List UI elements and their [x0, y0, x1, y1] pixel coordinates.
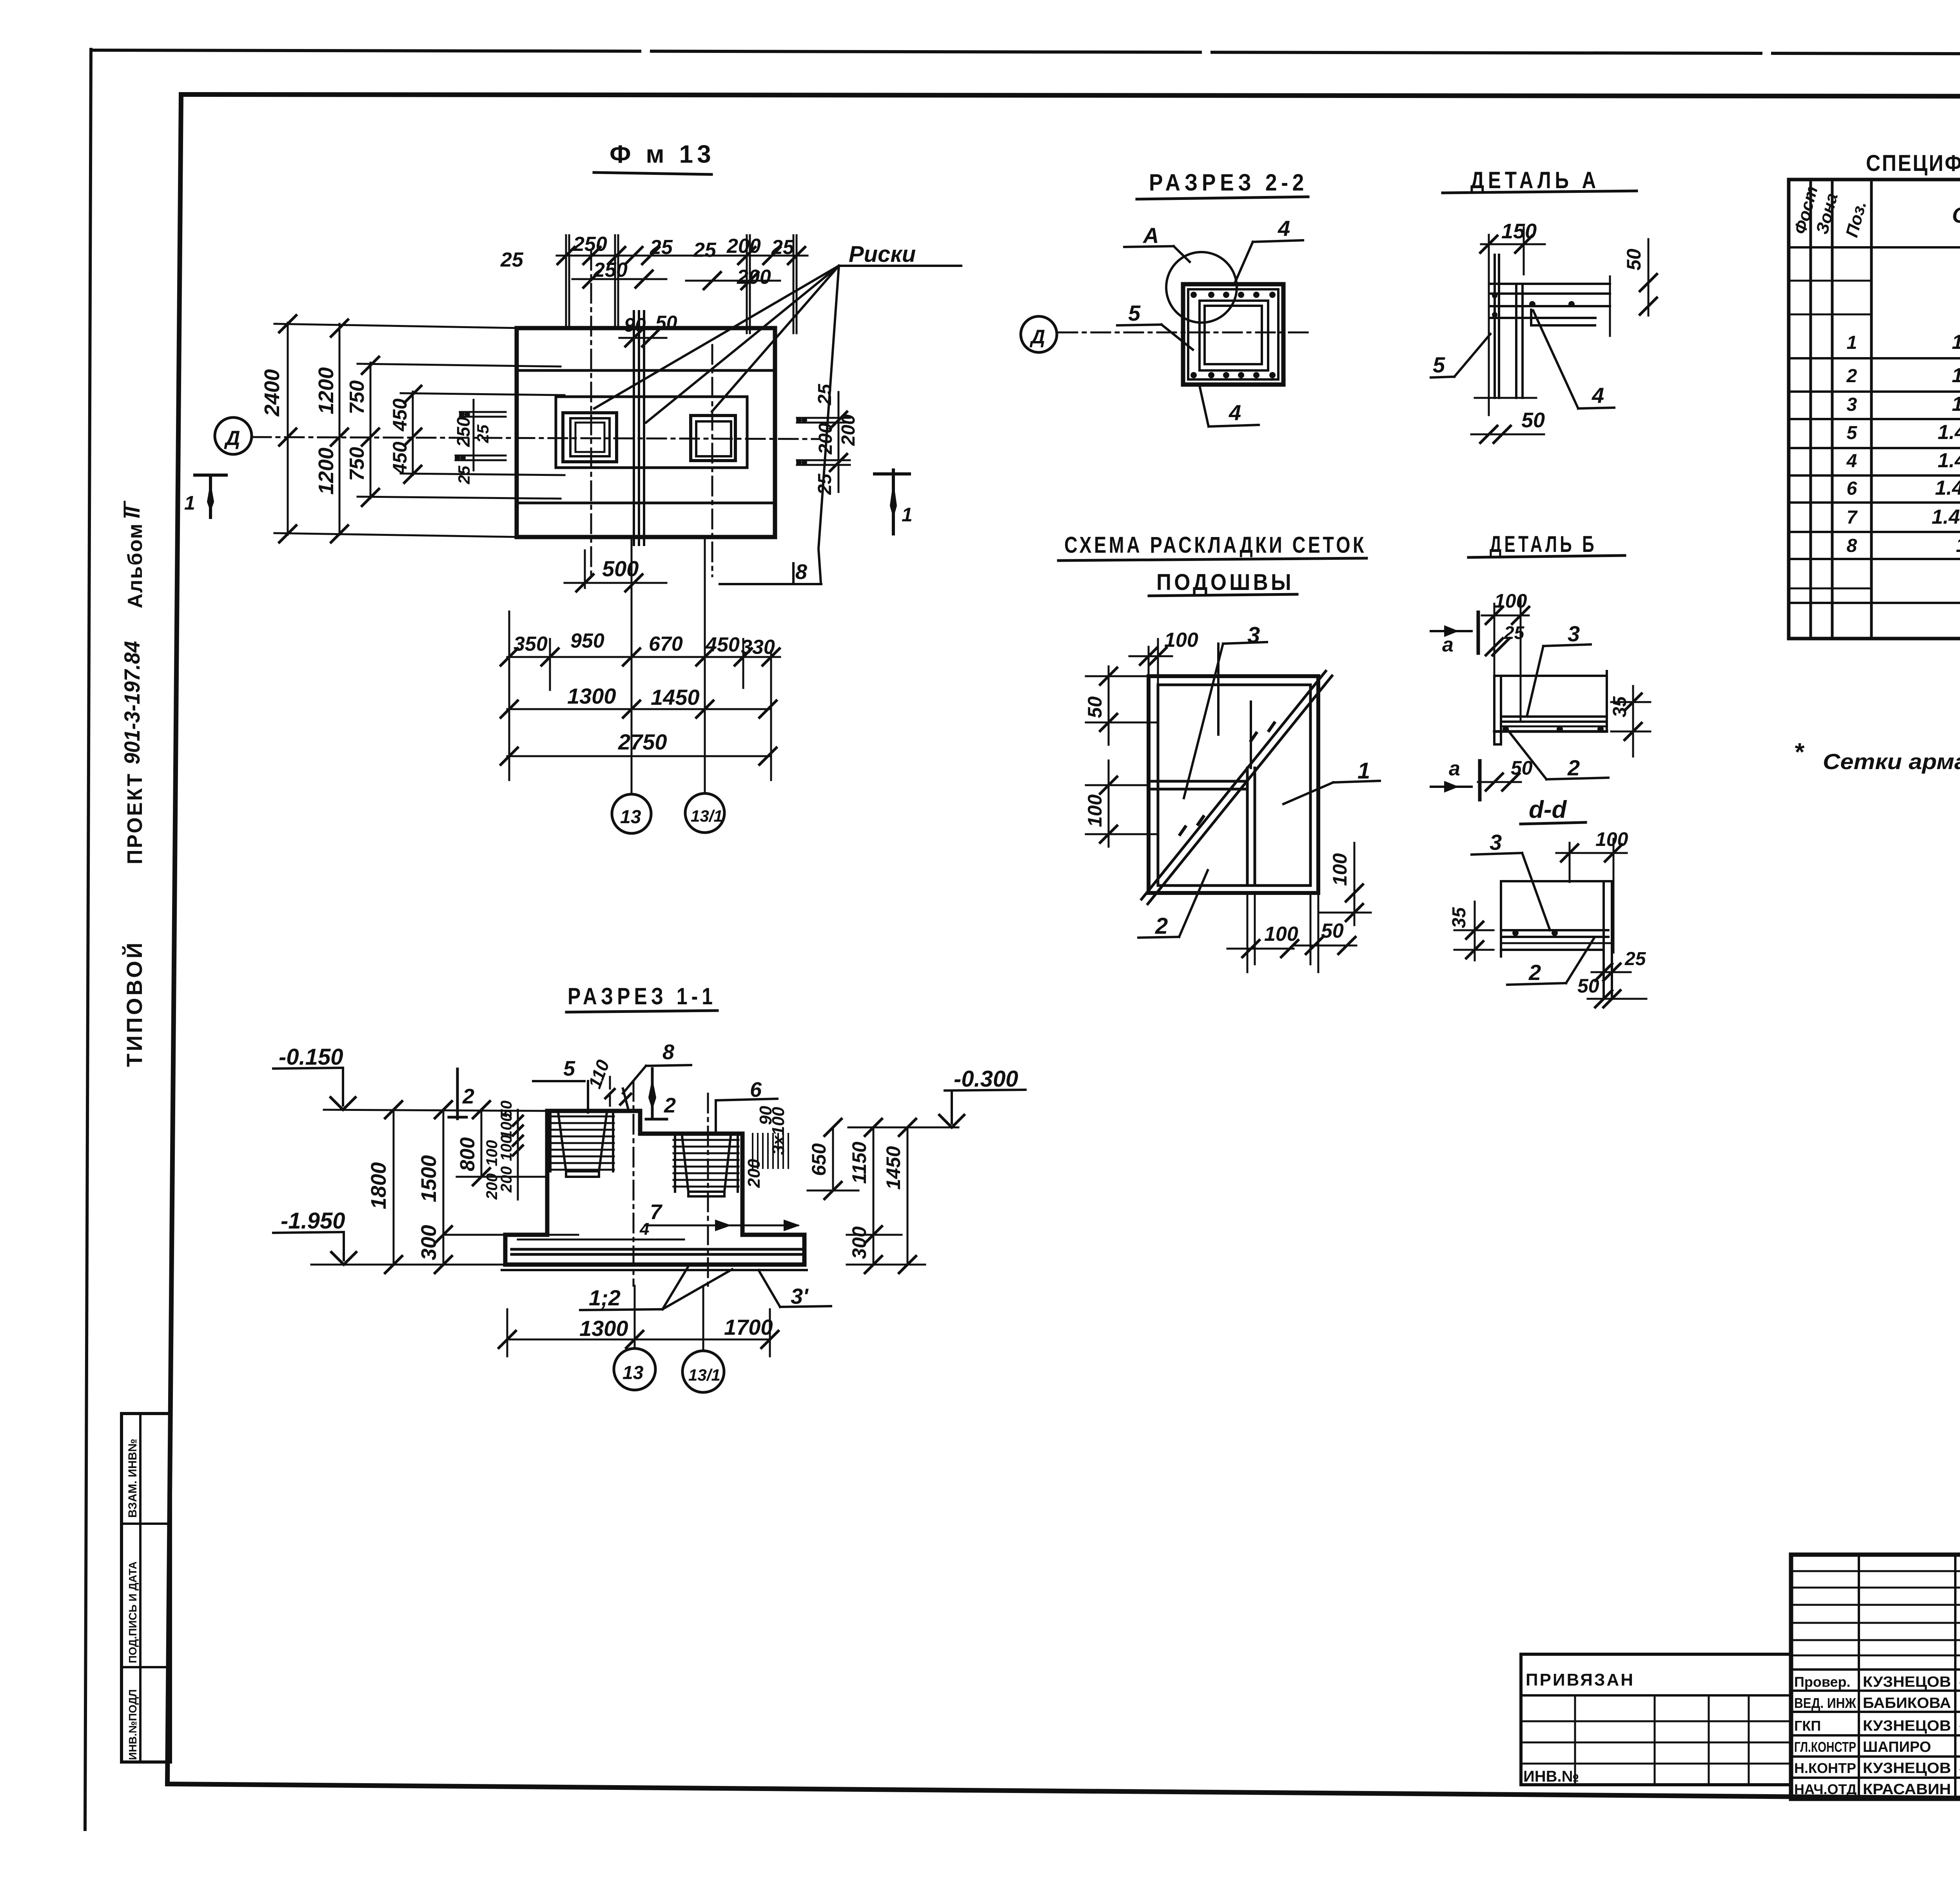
svg-text:Риски: Риски [849, 241, 916, 267]
svg-text:35: 35 [1449, 907, 1470, 928]
svg-text:1700: 1700 [724, 1315, 773, 1339]
svg-text:РАЗРЕЗ 2-2: РАЗРЕЗ 2-2 [1149, 169, 1308, 196]
plan dim 500 [564, 550, 666, 592]
svg-text:Н.КОНТР: Н.КОНТР [1794, 1760, 1856, 1776]
detail A vertical bars [1475, 255, 1595, 398]
title block staff names [1794, 1674, 1951, 1798]
svg-text:Альбом: Альбом [124, 523, 147, 608]
svg-text:50: 50 [498, 1101, 515, 1118]
svg-text:1: 1 [1357, 758, 1370, 784]
svg-text:ВЕД. ИНЖ: ВЕД. ИНЖ [1794, 1695, 1856, 1711]
label 7 and 4 (section 1-1) [639, 1200, 798, 1239]
svg-text:2750: 2750 [618, 730, 667, 754]
label 3' [759, 1270, 831, 1308]
svg-text:ПРИВЯЗАН: ПРИВЯЗАН [1526, 1670, 1635, 1689]
detail B dim 35 right [1610, 686, 1650, 757]
svg-text:1.412.1-4.060: 1.412.1-4.060 [1956, 534, 1960, 557]
mesh scheme inner mesh border [1158, 685, 1310, 886]
svg-text:1.412-1/77 вып.3: 1.412-1/77 вып.3 [1938, 449, 1960, 472]
plan riski trio lines [634, 311, 644, 545]
footing rebar lines [512, 1239, 802, 1254]
section 2-2 rebar dots top [1191, 292, 1276, 298]
axis bubble Д [215, 417, 252, 454]
section 2-2 rebar dots bottom [1191, 372, 1276, 378]
left socket cup [550, 1112, 613, 1177]
svg-text:2: 2 [1155, 913, 1168, 939]
footnote [1794, 738, 1960, 774]
svg-text:950: 950 [570, 630, 604, 652]
plan right column socket [691, 416, 735, 461]
section mark 2 upper (section 1-1) [449, 1069, 474, 1119]
plan vertical axis left square [590, 251, 592, 580]
footing underlay line [502, 1269, 807, 1271]
svg-text:1200: 1200 [314, 367, 338, 414]
svg-text:3: 3 [1568, 621, 1580, 646]
level mark -0.150 [273, 1044, 356, 1110]
svg-text:50: 50 [1084, 696, 1106, 718]
svg-text:5: 5 [563, 1057, 575, 1080]
detail B title [1468, 532, 1625, 557]
detail A title [1443, 167, 1637, 193]
detail B dim 25 [1485, 622, 1525, 656]
svg-text:Д: Д [224, 427, 240, 450]
svg-text:1: 1 [184, 492, 195, 514]
dim 1300 1700 (section 1-1) [498, 1309, 779, 1356]
axis bubble Д (section 2-2) [1021, 316, 1057, 352]
axis bubble 13/1 (plan) [685, 793, 724, 833]
dim 300 right (section 1-1) [847, 1226, 902, 1274]
label 5 (section 1-1) [533, 1057, 588, 1112]
svg-text:1800: 1800 [367, 1162, 390, 1209]
svg-text:200: 200 [483, 1173, 501, 1200]
svg-text:330: 330 [741, 636, 775, 659]
dim 1150 (section 1-1) [848, 1118, 883, 1244]
svg-text:750: 750 [346, 447, 368, 481]
plan bottom helper verticals [509, 612, 771, 780]
spec table grid [1789, 180, 1960, 639]
svg-text:2: 2 [1846, 366, 1857, 387]
svg-text:5: 5 [1128, 301, 1141, 325]
left socket mesh hatch [549, 1116, 614, 1170]
svg-text:1: 1 [1847, 332, 1857, 353]
svg-text:ШАПИРО: ШАПИРО [1863, 1739, 1931, 1755]
svg-text:90: 90 [624, 314, 646, 336]
section d-d title [1521, 796, 1586, 824]
section mark 1 left of plan [184, 475, 226, 517]
svg-text:100: 100 [1264, 923, 1298, 945]
outer border top [91, 50, 1960, 55]
plan dim row 1300 1450 [500, 684, 777, 719]
dim 1500 and 300 (section 1-1) [417, 1100, 578, 1274]
svg-text:1.412-1/77 в3-020: 1.412-1/77 в3-020 [1935, 477, 1960, 499]
detail B dim 50 bottom [1478, 757, 1533, 791]
svg-text:2: 2 [664, 1094, 676, 1117]
section 1-1 right datum line [848, 1127, 958, 1129]
label 8 (section 1-1) [623, 1040, 691, 1093]
svg-text:3: 3 [1490, 830, 1502, 855]
svg-text:650: 650 [808, 1143, 830, 1176]
svg-text:25: 25 [650, 236, 673, 259]
detail A dim 50 bottom [1471, 408, 1545, 444]
spec table headers [1790, 184, 1960, 239]
svg-text:1;2: 1;2 [589, 1285, 621, 1310]
svg-text:КУЗНЕЦОВ: КУЗНЕЦОВ [1863, 1760, 1951, 1777]
spec table title [1866, 151, 1960, 176]
svg-text:450: 450 [705, 633, 740, 656]
spec row 6 [1847, 477, 1960, 501]
section mark a bottom (detail B) [1431, 757, 1480, 800]
section 1-1 top datum line [324, 1110, 547, 1111]
section mark 1 right of plan [875, 470, 913, 534]
plan title Фм 13 [594, 140, 715, 174]
svg-text:750: 750 [346, 380, 368, 414]
detail B slab [1494, 671, 1607, 744]
svg-text:250: 250 [593, 259, 628, 281]
detail A dim 150 [1479, 220, 1545, 415]
label 5 (detail A) [1431, 334, 1490, 377]
spec row 5 [1847, 421, 1960, 445]
svg-text:4: 4 [1592, 383, 1604, 408]
svg-text:6: 6 [750, 1078, 762, 1102]
label 4 (detail A) [1533, 310, 1614, 408]
svg-text:7: 7 [650, 1200, 663, 1224]
detail A callout circle [1166, 252, 1237, 323]
label 4 top (section 2-2) [1235, 216, 1303, 283]
spec row 7 [1847, 506, 1960, 530]
mesh scheme diagonal [1142, 671, 1332, 904]
right socket cup [675, 1136, 738, 1196]
svg-text:50: 50 [1521, 408, 1545, 432]
mesh scheme right dim 100 [1319, 843, 1371, 925]
svg-text:25: 25 [455, 466, 473, 485]
dim 110 (section 1-1) [584, 1057, 615, 1111]
svg-text:ГЛ.КОНСТР: ГЛ.КОНСТР [1794, 1739, 1856, 1755]
spec row 3 [1847, 393, 1960, 417]
svg-text:3x100: 3x100 [769, 1107, 788, 1155]
label 8 with line (plan) [720, 560, 821, 584]
svg-text:100: 100 [483, 1140, 501, 1166]
detail B dim 100 [1482, 590, 1530, 721]
svg-text:СХЕМА РАСКЛАДКИ СЕТОК: СХЕМА РАСКЛАДКИ СЕТОК [1064, 532, 1367, 558]
dim 800 (section 1-1) [456, 1100, 545, 1186]
label 2 (detail B) [1508, 730, 1608, 780]
mesh scheme left dims 50 100 [1084, 666, 1158, 847]
label 4 bottom (section 2-2) [1200, 386, 1259, 426]
axis bubble 13 (plan) [612, 794, 651, 833]
plan top dim line row1 [557, 246, 808, 265]
svg-text:50: 50 [1577, 975, 1599, 997]
svg-text:100: 100 [1329, 853, 1351, 886]
svg-text:Д: Д [1029, 326, 1045, 348]
mesh scheme horizontal divider [1086, 781, 1247, 789]
svg-text:1300: 1300 [579, 1316, 628, 1341]
svg-text:а: а [1442, 633, 1454, 656]
svg-text:8: 8 [662, 1040, 674, 1064]
svg-text:50: 50 [1623, 249, 1645, 270]
svg-text:5: 5 [1847, 423, 1858, 443]
detail A horizontal slab bars [1490, 276, 1610, 336]
plan small dims 250 25 left [453, 400, 506, 485]
title block staff thin rows [1791, 1571, 1960, 1655]
svg-text:300: 300 [417, 1225, 441, 1260]
svg-text:13: 13 [620, 807, 641, 828]
svg-text:1.410-2 вып.1: 1.410-2 вып.1 [1952, 331, 1960, 354]
dim 1800 (section 1-1) [367, 1100, 403, 1274]
plan top dim helper verticals [566, 235, 797, 333]
plan horizontal axis Д [252, 437, 819, 439]
label 3 (d-d) [1472, 830, 1550, 930]
svg-text:200: 200 [737, 266, 771, 289]
section 1-1 axis 13 [633, 1082, 635, 1286]
svg-text:4: 4 [639, 1219, 649, 1239]
dim hatch strokes right of socket [753, 1134, 788, 1168]
svg-text:1.410-2 вып.1: 1.410-2 вып.1 [1952, 364, 1960, 387]
slope label 1:2 [580, 1267, 732, 1310]
svg-text:8: 8 [795, 560, 807, 584]
section mark 2 lower-right (section 1-1) [646, 1069, 676, 1119]
svg-text:4: 4 [1846, 451, 1857, 472]
section 1-1 concrete profile [505, 1111, 804, 1265]
detail A rebar dots [1492, 293, 1575, 318]
left margin project text [120, 502, 147, 1067]
svg-text:5: 5 [1433, 352, 1445, 377]
plan pedestal rectangle [556, 397, 747, 468]
svg-text:25: 25 [771, 236, 795, 259]
label А (section 2-2) [1124, 223, 1190, 262]
svg-text:250: 250 [573, 233, 607, 256]
svg-text:25: 25 [474, 425, 492, 443]
embedded element symbol 1 (section 1-1) [651, 1069, 653, 1116]
svg-text:ПОДОШВЫ: ПОДОШВЫ [1156, 570, 1294, 595]
svg-text:КУЗНЕЦОВ: КУЗНЕЦОВ [1863, 1718, 1951, 1734]
svg-text:13/1: 13/1 [691, 807, 723, 825]
svg-text:2: 2 [462, 1085, 474, 1108]
svg-text:100: 100 [1595, 828, 1628, 850]
svg-text:БАБИКОВА: БАБИКОВА [1863, 1695, 1951, 1711]
svg-text:-1.950: -1.950 [281, 1208, 345, 1234]
svg-text:670: 670 [649, 633, 683, 655]
svg-text:Провер.: Провер. [1794, 1674, 1851, 1690]
svg-text:ДЕТАЛЬ Б: ДЕТАЛЬ Б [1490, 532, 1597, 557]
axis bubble 13 (section 1-1) [614, 1348, 655, 1390]
svg-text:1500: 1500 [417, 1155, 441, 1202]
detail B rebar dots [1503, 726, 1604, 732]
d-d dim 100 [1556, 828, 1628, 953]
label 5 (section 2-2) [1117, 301, 1193, 350]
svg-text:200: 200 [726, 235, 761, 258]
mesh scheme dim 100 top [1129, 629, 1198, 685]
section 1-1 axis 13/1 [707, 1094, 709, 1286]
svg-text:200: 200 [744, 1159, 764, 1188]
mesh scheme outer square [1149, 676, 1318, 893]
svg-text:1.412-1/77-в.3-130: 1.412-1/77-в.3-130 [1932, 506, 1960, 528]
left margin inventory table [122, 1414, 171, 1762]
svg-text:1.412-1/77 вып.3: 1.412-1/77 вып.3 [1938, 421, 1960, 444]
detail A dim 50 right [1623, 239, 1658, 316]
plan outer footing rectangle [517, 328, 775, 537]
svg-text:СПЕЦИФИКАЦИЯ ЭЛЕМЕНТОВ МОНОЛИТ: СПЕЦИФИКАЦИЯ ЭЛЕМЕНТОВ МОНОЛИТНОЙ КОНСТР… [1866, 151, 1960, 176]
svg-text:*: * [1794, 738, 1805, 766]
right socket mesh hatch [673, 1140, 739, 1187]
svg-text:25: 25 [815, 473, 835, 495]
svg-text:800: 800 [456, 1137, 479, 1171]
plan top dim line row2 [572, 259, 780, 290]
section 1-1 title [566, 983, 717, 1012]
level mark -0.300 [938, 1066, 1025, 1127]
svg-text:50: 50 [1511, 757, 1533, 779]
title block staff row lines [1791, 1670, 1960, 1778]
label 2 (mesh scheme) [1138, 870, 1208, 939]
svg-text:1: 1 [902, 504, 913, 526]
svg-text:Сетки арматурные поз.12 (1С12: Сетки арматурные поз.12 (1С12АП-6х18)обр… [1823, 749, 1960, 774]
svg-text:25: 25 [1624, 949, 1646, 969]
plan left column socket [563, 413, 617, 462]
mesh scheme vertical divider [1247, 702, 1255, 886]
spec row 8 [1847, 534, 1960, 558]
svg-text:ТИПОВОЙ: ТИПОВОЙ [122, 940, 147, 1067]
section 2-2 title [1137, 169, 1308, 199]
svg-text:ИНВ.№: ИНВ.№ [1523, 1768, 1579, 1785]
svg-text:7: 7 [1847, 507, 1858, 528]
plan band lines [517, 370, 775, 503]
label 3 (mesh scheme) [1184, 622, 1267, 798]
svg-text:50: 50 [1321, 920, 1344, 942]
section 1-1 axis drop lines [635, 1286, 703, 1351]
svg-text:13: 13 [622, 1363, 644, 1383]
dims 90 3x100 200 (section 1-1 right) [744, 1106, 788, 1188]
d-d slab [1501, 881, 1612, 999]
svg-text:-0.300: -0.300 [954, 1066, 1018, 1092]
svg-text:450: 450 [389, 398, 411, 432]
plan dim 450 450 vertical [389, 385, 564, 484]
d-d dim 35 left [1449, 902, 1494, 960]
svg-text:25: 25 [693, 239, 717, 261]
svg-text:2: 2 [1567, 755, 1580, 780]
svg-text:4: 4 [1278, 216, 1290, 241]
svg-text:d-d: d-d [1529, 796, 1567, 823]
svg-text:ВЗАМ. ИНВ№: ВЗАМ. ИНВ№ [126, 1439, 139, 1518]
svg-text:25: 25 [500, 249, 524, 271]
label 1 (mesh scheme) [1283, 758, 1380, 804]
svg-text:ПОД.ПИСЬ И ДАТА: ПОД.ПИСЬ И ДАТА [127, 1561, 139, 1663]
svg-text:50: 50 [655, 312, 677, 334]
plan top dim row1 numbers [500, 233, 795, 271]
plan axis drop lines to bubbles [632, 537, 705, 794]
section mark a top (detail B) [1431, 612, 1478, 656]
svg-text:300: 300 [848, 1226, 870, 1259]
label 3 (detail B) [1527, 621, 1591, 717]
svg-text:2400: 2400 [260, 369, 284, 417]
svg-text:450: 450 [389, 441, 411, 475]
svg-text:200: 200 [838, 414, 859, 446]
plan dim 750 750 vertical [346, 356, 561, 507]
plan dim 1200 1200 vertical [314, 319, 349, 543]
svg-text:Обозначение: Обозначение [1952, 203, 1960, 227]
svg-text:1300: 1300 [567, 684, 616, 708]
d-d dim 25 right [1592, 949, 1646, 982]
spec row 4 [1846, 449, 1960, 473]
svg-text:500: 500 [602, 556, 639, 581]
svg-text:100: 100 [1164, 629, 1198, 651]
axis bubble 13/1 (section 1-1) [682, 1351, 724, 1392]
dim 1450 (section 1-1) [847, 1118, 925, 1274]
left attachment box [1521, 1654, 1791, 1785]
riski label and leader fan [594, 241, 961, 583]
svg-text:2: 2 [1528, 960, 1541, 985]
spec row 2 [1846, 364, 1960, 388]
label 6 (section 1-1) [716, 1078, 777, 1133]
svg-text:13/1: 13/1 [688, 1366, 720, 1384]
title block staff columns [1859, 1555, 1960, 1799]
svg-text:ПРОЕКТ: ПРОЕКТ [123, 772, 147, 864]
svg-text:901-3-197.84: 901-3-197.84 [120, 641, 144, 764]
svg-text:КРАСАВИН: КРАСАВИН [1863, 1781, 1951, 1798]
svg-text:ИНВ.№ПОДЛ: ИНВ.№ПОДЛ [127, 1689, 139, 1760]
section 2-2 axis line [1058, 332, 1310, 334]
svg-text:150: 150 [1501, 220, 1537, 243]
svg-text:350: 350 [514, 633, 548, 655]
outer border left [85, 49, 91, 1829]
svg-text:3: 3 [1847, 394, 1857, 415]
d-d dim 50 [1577, 975, 1646, 1008]
svg-text:3: 3 [1247, 622, 1260, 648]
svg-text:КУЗНЕЦОВ: КУЗНЕЦОВ [1863, 1674, 1951, 1690]
svg-text:100: 100 [1084, 794, 1106, 827]
svg-text:1.410-2 вып.1: 1.410-2 вып.1 [1952, 393, 1960, 416]
title block outer [1791, 1555, 1960, 1799]
plan vertical axis right square [711, 345, 713, 576]
svg-text:1450: 1450 [882, 1146, 904, 1190]
cut flag at step (section 1-1) [619, 1089, 632, 1110]
plan dim row 2750 [500, 730, 777, 766]
d-d rebar dots [1512, 930, 1558, 936]
plan right small dims 25 200 200 25 [796, 383, 859, 495]
svg-text:а: а [1449, 757, 1460, 780]
plan dim row 350 950 670 450 330 [500, 630, 780, 666]
plan dim 2400 vertical [260, 314, 521, 543]
svg-text:6: 6 [1847, 478, 1857, 499]
svg-text:1200: 1200 [314, 448, 338, 495]
svg-text:А: А [1142, 223, 1159, 248]
section 2-2 nested squares [1183, 284, 1283, 385]
svg-text:1450: 1450 [651, 685, 700, 710]
svg-text:1150: 1150 [848, 1141, 870, 1184]
svg-text:РАЗРЕЗ 1-1: РАЗРЕЗ 1-1 [568, 983, 717, 1009]
label 2 (d-d) [1507, 938, 1594, 985]
level mark -1.950 [273, 1208, 357, 1265]
svg-text:-0.150: -0.150 [279, 1044, 343, 1070]
svg-text:25: 25 [815, 383, 835, 405]
svg-text:НАЧ.ОТД: НАЧ.ОТД [1794, 1781, 1857, 1797]
svg-text:ГКП: ГКП [1794, 1718, 1821, 1734]
svg-text:Ф м 13: Ф м 13 [610, 140, 715, 168]
spec row 1 [1847, 322, 1960, 359]
svg-text:8: 8 [1847, 535, 1857, 556]
section 1-1 bottom datum line [311, 1264, 505, 1266]
svg-text:250: 250 [453, 417, 474, 447]
mesh scheme title [1058, 532, 1367, 596]
svg-text:4: 4 [1229, 400, 1241, 425]
plan top dim 90 50 [619, 312, 677, 347]
svg-text:3': 3' [791, 1284, 809, 1308]
mesh scheme bottom dims 100 50 [1227, 893, 1356, 972]
svg-text:ДЕТАЛЬ А: ДЕТАЛЬ А [1470, 167, 1600, 193]
micro dims 200 100 100 50 (section 1-1 left) [483, 1101, 524, 1200]
dim 650 (section 1-1) [808, 1118, 858, 1200]
